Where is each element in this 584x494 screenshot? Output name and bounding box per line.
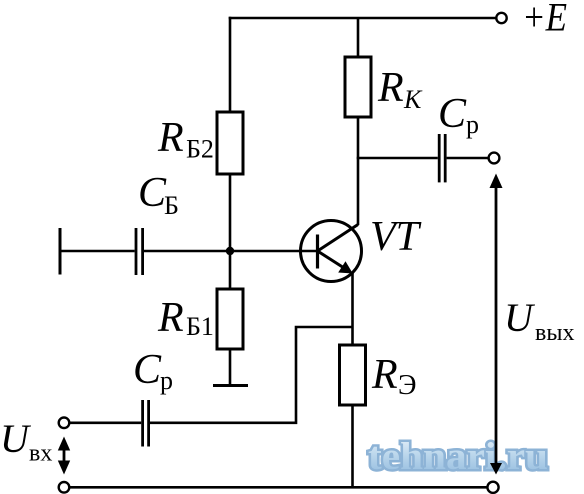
- node base junction: [226, 247, 234, 255]
- wire RК top: [357, 18, 360, 57]
- svg-text:R: R: [157, 295, 184, 341]
- svg-text:VT: VT: [370, 214, 422, 260]
- terminal +E: [496, 13, 506, 23]
- wire below RБ1: [229, 349, 232, 385]
- terminal output: [489, 153, 500, 164]
- resistor RБ1: [217, 289, 243, 349]
- svg-text:К: К: [403, 85, 423, 114]
- wire left branch upper: [229, 17, 232, 114]
- svg-text:R: R: [377, 65, 404, 111]
- svg-text:R: R: [157, 115, 184, 161]
- terminal input bottom: [59, 482, 70, 493]
- resistor RЭ: [340, 345, 366, 405]
- svg-text:Б1: Б1: [186, 312, 214, 341]
- capacitor CБ: [135, 228, 138, 275]
- wire CБ to base: [144, 250, 317, 253]
- svg-text:p: p: [160, 366, 173, 395]
- svg-text:U: U: [504, 295, 536, 340]
- svg-text:Э: Э: [398, 370, 416, 401]
- resistor RБ2: [217, 112, 243, 174]
- svg-text:C: C: [133, 347, 162, 393]
- wire Cр to output: [447, 157, 489, 160]
- svg-text:C: C: [138, 170, 167, 216]
- terminal input top: [59, 418, 70, 429]
- wire collector: [357, 117, 360, 225]
- svg-text:Б: Б: [164, 191, 179, 220]
- svg-text:tehnari.ru: tehnari.ru: [368, 435, 548, 478]
- resistor RК: [345, 57, 371, 117]
- wire emitter: [351, 272, 354, 345]
- svg-text:C: C: [438, 91, 467, 137]
- capacitor Cр top: [438, 134, 441, 182]
- wire top rail: [229, 17, 496, 20]
- wire bottom rail: [69, 486, 487, 489]
- ground: [213, 384, 248, 387]
- wire left branch middle: [229, 174, 232, 290]
- transistor VT: [301, 221, 362, 282]
- svg-text:вх: вх: [29, 441, 52, 467]
- wire feedback emitter to Cр bottom: [150, 327, 353, 423]
- terminal output bottom: [487, 482, 498, 493]
- capacitor Cр bottom: [141, 400, 144, 447]
- svg-text:+E: +E: [522, 0, 567, 40]
- wire collector to Cр: [357, 157, 438, 160]
- svg-text:вых: вых: [535, 320, 574, 346]
- svg-text:U: U: [0, 416, 32, 461]
- arrow Uвых: [495, 184, 498, 466]
- svg-text:R: R: [371, 352, 398, 398]
- watermark tehnari.ru: [368, 435, 548, 478]
- input stub bar: [59, 228, 62, 275]
- svg-text:Б2: Б2: [186, 135, 214, 164]
- wire RЭ bottom: [351, 405, 354, 487]
- svg-text:p: p: [466, 110, 479, 139]
- arrow Uвх: [63, 446, 66, 465]
- wire input to Cр bottom: [69, 421, 141, 424]
- wire input to CБ: [60, 250, 135, 253]
